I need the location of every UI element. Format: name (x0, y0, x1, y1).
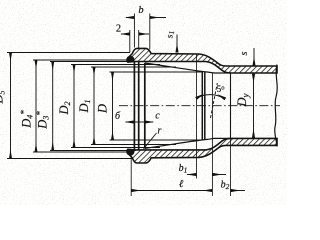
dim b (top) (133, 14, 135, 48)
shoulder edge a (201, 71, 203, 140)
socket seat taper line (lower) (145, 138, 231, 148)
shoulder edge b (204, 72, 206, 140)
groove edge (138, 62, 140, 150)
dim D2 (73, 65, 75, 148)
mouth nose blob (bottom) (128, 149, 134, 155)
transition end edge (230, 73, 232, 138)
dim s1 leader (176, 35, 178, 53)
dim b1 (196, 54, 198, 179)
centerline (dash-dot axis) (119, 105, 280, 107)
dim D1 (93, 67, 95, 145)
dim D3 (52, 62, 54, 151)
dim b2 (230, 139, 232, 196)
dim Dy (253, 74, 255, 138)
dim l (130, 155, 132, 196)
dim D (112, 72, 114, 140)
bottom wall band (hatched section, mirrored) (127, 138, 277, 163)
top wall band (hatched section of socket + pipe upper wall) (127, 48, 277, 73)
dim s leader (253, 48, 255, 65)
mouth nose blob (top) (128, 56, 134, 62)
socket seat taper line (upper, 5 deg) (145, 63, 231, 73)
mouth face edge (133, 62, 135, 150)
dim b(б) and c (126, 121, 134, 123)
dim 2 (top) (129, 30, 131, 53)
r leader (144, 133, 157, 149)
5 deg angle arc (196, 95, 225, 99)
5 deg dashed slant (211, 83, 218, 118)
break line (275, 65, 278, 147)
groove inner edge (144, 63, 146, 148)
dim 2 right extension (138, 30, 140, 48)
dim D5 (10, 53, 12, 159)
dim D4 (35, 60, 37, 152)
